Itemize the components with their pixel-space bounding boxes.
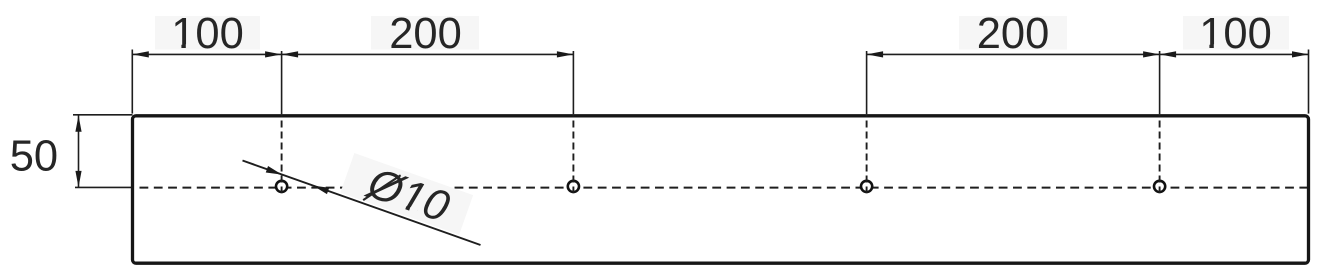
svg-text:50: 50 [10, 132, 58, 180]
diameter label halo [340, 153, 473, 235]
extension line left plate edge [131, 50, 133, 114]
arrow left end of 200 left [282, 51, 299, 57]
text halo 200 right [959, 16, 1067, 50]
text halo 100 left [155, 16, 260, 50]
50-dim vertical dimension line [78, 115, 80, 187]
dimension line 200 left [282, 53, 574, 55]
hole 4 [1154, 181, 1165, 192]
arrow right end of 200 left [557, 51, 574, 57]
vertical dashed centerline hole 2 [572, 115, 574, 194]
hole 3 [861, 181, 872, 192]
extension line hole 1 [281, 51, 283, 114]
dimension line 100 right [1160, 53, 1309, 55]
vertical dashed centerline hole 3 [866, 115, 868, 194]
svg-text:200: 200 [977, 10, 1050, 58]
arrow right end of 100 left [265, 51, 282, 57]
hole 1 [276, 181, 287, 192]
arrow left end of 100 right [1160, 51, 1177, 57]
extension line hole 3 [866, 51, 868, 114]
arrow left end of 200 right [867, 51, 884, 57]
svg-text:Ø10: Ø10 [360, 159, 455, 232]
extension line right plate edge [1308, 50, 1310, 114]
extension line hole 4 [1159, 51, 1161, 114]
svg-text:100: 100 [1199, 10, 1272, 58]
erase foot serif of italic 1 [397, 203, 406, 210]
arrow top end of 50 dim [75, 115, 81, 132]
dimension line 200 right [867, 53, 1160, 55]
text halo 100 right [1183, 16, 1289, 50]
50-dim upper extension line [73, 114, 133, 116]
leader arrow lower (points up-left at hole 1) [313, 186, 329, 195]
plate outline [133, 116, 1309, 263]
arrow right end of 100 right [1292, 51, 1309, 57]
dimension line 100 left [132, 53, 281, 55]
extension line hole 2 [572, 51, 574, 114]
svg-text:200: 200 [389, 10, 462, 58]
vertical dashed centerline hole 4 [1159, 115, 1161, 194]
diameter text Ø10 [360, 159, 455, 232]
diameter symbol slash extension [363, 166, 400, 209]
vertical dashed centerline hole 1 [281, 115, 283, 194]
horizontal centerline dashed [133, 187, 1309, 189]
diameter leader line [243, 161, 481, 246]
arrow bottom end of 50 dim [75, 171, 81, 188]
text halo 200 left [371, 16, 479, 50]
erase foot serif of 1 in right 100 [1202, 44, 1209, 48]
centerline solid left stub / 50-dim lower extension line [75, 186, 134, 188]
arrow right end of 200 right [1143, 51, 1160, 57]
svg-text:100: 100 [171, 10, 244, 58]
erase foot serif of 1 in left 100 [174, 44, 181, 48]
arrow left end of 100 left [132, 51, 149, 57]
hole 2 [568, 181, 579, 192]
leader arrow upper (points down-right at hole 1) [266, 166, 282, 175]
